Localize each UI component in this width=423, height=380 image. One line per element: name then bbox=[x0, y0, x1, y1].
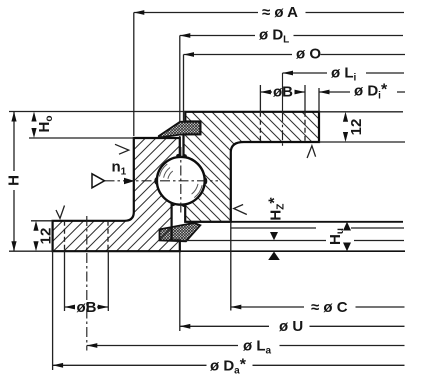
extension line for U (seal seat edge down) bbox=[179, 251, 181, 331]
raceway osculation arcs (lower-right) bbox=[194, 185, 202, 198]
extension line for B bottom (right) bbox=[107, 251, 109, 311]
extension line for C (inner ring web edge down) bbox=[230, 222, 232, 311]
gap below ball (right edge) bbox=[184, 204, 186, 222]
raceway contact marks bbox=[154, 177, 158, 184]
gap edge crossing lower seal bbox=[171, 226, 173, 241]
extension line for L_i (bolt hole centerline, upper) bbox=[282, 73, 284, 112]
dimension O bbox=[184, 46, 406, 63]
dimension C (approx.) bbox=[231, 299, 405, 316]
svg-text:H: H bbox=[6, 175, 23, 186]
dimension B (bottom bolt hole) bbox=[65, 299, 109, 316]
svg-text:øB: øB bbox=[77, 299, 97, 316]
dimension 12 (right flange thickness) bbox=[343, 112, 365, 142]
extension line for A (outer ring left edge up) bbox=[133, 13, 135, 137]
outer ring bottom face line (extends right) bbox=[53, 250, 405, 252]
gap between rings above ball (right edge) bbox=[183, 134, 185, 157]
n1 rotation speed annotation (flag, arrow, label) bbox=[92, 159, 135, 188]
outer ring cross-section (left, hatched) bbox=[53, 138, 180, 251]
extension line for B top (right) bbox=[304, 85, 306, 112]
inner ring mounting face line (bold, extends right) bbox=[185, 221, 403, 223]
extension line outer ring top (for H_o) bbox=[29, 137, 134, 139]
hidden bolt hole edge in inner ring (right, dashed) bbox=[304, 112, 306, 142]
dimension D_i* (inner ring bore) bbox=[319, 82, 405, 102]
ball horizontal centerline bbox=[105, 180, 219, 182]
extension line for D_a (flange outer edge down) bbox=[52, 251, 54, 370]
dimension L_i (inner bolt circle) bbox=[283, 65, 405, 84]
svg-text:øB: øB bbox=[273, 84, 293, 101]
svg-text:≈ ø A: ≈ ø A bbox=[262, 4, 298, 21]
svg-text:ø Da*: ø Da* bbox=[210, 356, 247, 376]
surface finish mark (flange top) bbox=[56, 206, 65, 219]
inner ring top face line (thin, right of ring) bbox=[319, 111, 403, 113]
gap below ball (left edge) bbox=[171, 203, 173, 226]
dimension A (approx. outside diameter) bbox=[134, 4, 404, 21]
support surface line below inner ring bbox=[231, 227, 404, 229]
hidden bolt hole edge in flange (left, dashed) bbox=[64, 221, 66, 251]
bolt hole centerline in outer ring flange (dash-dot, for L_a) bbox=[86, 216, 88, 351]
hidden bolt hole edge in flange (right, dashed) bbox=[107, 221, 109, 251]
svg-text:≈ ø C: ≈ ø C bbox=[311, 299, 348, 316]
surface finish mark (inner ring flange underside) bbox=[307, 146, 316, 158]
dimension H (overall height) bbox=[6, 112, 23, 252]
dimension H_o (ring height offset) bbox=[31, 112, 55, 139]
svg-text:ø Li: ø Li bbox=[331, 65, 357, 84]
surface finish mark (inner ring web edge) bbox=[234, 205, 247, 215]
hidden bolt hole edge in inner ring (left, dashed) bbox=[259, 112, 261, 142]
dimension H_u (lower clearance height) bbox=[327, 222, 351, 251]
extension line bottom face (left, for H) bbox=[9, 250, 53, 252]
seal seat surface line (extends right) bbox=[181, 240, 405, 242]
extension line for O bbox=[183, 55, 185, 122]
raceway osculation arcs (upper-left) bbox=[159, 164, 167, 177]
dimension B (top bolt hole) bbox=[260, 84, 305, 101]
extension line for B top (left) bbox=[259, 85, 261, 112]
dimension 12 (left flange thickness) bbox=[33, 221, 54, 251]
extension line top face (left, for H and H_o) bbox=[9, 111, 185, 113]
dimension D_a* (outside diameter) bbox=[53, 356, 405, 376]
dimension D_L (raceway diameter) bbox=[180, 27, 403, 46]
svg-text:ø O: ø O bbox=[296, 46, 321, 63]
gap between rings above ball (left edge) bbox=[179, 136, 181, 157]
extension line flange top (for 12 left) bbox=[31, 220, 53, 222]
svg-text:12: 12 bbox=[348, 119, 365, 136]
lower seal (cross-hatched) bbox=[160, 223, 201, 241]
inner ring flange underside line (thin, right of ring) bbox=[319, 141, 405, 143]
svg-text:ø U: ø U bbox=[279, 318, 303, 335]
svg-text:12: 12 bbox=[38, 228, 55, 245]
extension line for B bottom (left) bbox=[64, 251, 66, 311]
ball (rolling element) bbox=[105, 147, 219, 215]
surface finish mark (outer ring left edge) bbox=[115, 144, 129, 154]
upper seal (cross-hatched) bbox=[159, 121, 201, 137]
dimension H_Z* (spigot height) bbox=[267, 197, 287, 260]
extension line for D_i (inner ring bore) bbox=[318, 88, 320, 112]
ball vertical centerline bbox=[180, 147, 182, 215]
extension line for D_L (raceway) bbox=[179, 36, 181, 122]
bolt hole centerline in inner ring (dash-dot) bbox=[282, 112, 284, 147]
dimension U (seal seat diameter) bbox=[180, 318, 405, 335]
dimension L_a (outer bolt circle) bbox=[87, 338, 405, 357]
inner ring cross-section (right, hatched) bbox=[184, 112, 320, 222]
